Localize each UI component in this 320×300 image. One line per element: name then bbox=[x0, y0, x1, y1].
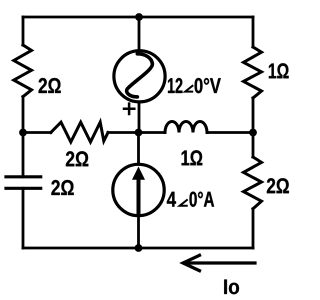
wire left top (top rail to R1) bbox=[22, 17, 25, 45]
voltage source V1 sine wave bbox=[127, 54, 153, 97]
label R2 value 1ohm bbox=[269, 63, 289, 78]
node C junction dot (mid right) bbox=[249, 129, 257, 137]
resistor R3 2ohm right lower bbox=[244, 157, 262, 209]
label I1 value 4 angle 0 A bbox=[167, 192, 176, 207]
wire middle (R4 to node B) bbox=[108, 131, 165, 134]
node B junction dot (mid center) bbox=[135, 129, 143, 137]
wire bottom rail bbox=[23, 247, 253, 250]
node bottom junction dot bbox=[135, 244, 143, 252]
node top junction dot bbox=[135, 13, 143, 21]
Io arrowhead bbox=[183, 255, 200, 270]
wire left (node A to C1) bbox=[22, 133, 25, 177]
angle symbol of V1 label bbox=[185, 85, 193, 91]
label L1 value 1ohm bbox=[182, 150, 203, 165]
wire right top (top rail to R2) bbox=[252, 17, 255, 47]
wire right bottom (R3 to bottom rail) bbox=[252, 209, 255, 248]
wire left bottom (C1 to bottom rail) bbox=[22, 188, 25, 248]
wire (I1 to bottom node) bbox=[137, 216, 140, 248]
wire right (node C to R3) bbox=[252, 133, 255, 158]
current source I1 circle bbox=[113, 164, 164, 215]
voltage source V1 circle bbox=[114, 51, 165, 102]
wire (V1 to node B) bbox=[138, 102, 141, 133]
node A junction dot (mid left) bbox=[19, 129, 27, 137]
label C1 value 2ohm bbox=[51, 180, 73, 195]
resistor R4 2ohm horizontal bbox=[51, 122, 108, 142]
resistor R2 1ohm right bbox=[244, 47, 262, 98]
inductor L1 1ohm bbox=[165, 122, 207, 133]
wire middle right (L1 to node C) bbox=[207, 131, 253, 134]
label V1 value 0 degree V bbox=[195, 78, 221, 93]
resistor R1 2ohm left bbox=[14, 45, 32, 97]
polarity plus sign of V1 bbox=[124, 104, 134, 114]
label R1 value 2ohm bbox=[39, 78, 61, 93]
capacitor C1 2ohm bbox=[6, 177, 41, 189]
label V1 value 12 angle 0 V bbox=[168, 78, 182, 93]
wire (node B to I1) bbox=[137, 133, 140, 165]
label I1 value 0 degree A bbox=[190, 192, 215, 207]
wire right (R2 to node C) bbox=[252, 98, 255, 133]
wire left (R1 to node A) bbox=[22, 97, 25, 133]
label R3 value 2ohm bbox=[267, 178, 289, 193]
angle symbol of I1 label bbox=[180, 199, 188, 205]
current source I1 arrowhead bbox=[132, 167, 145, 180]
label Io bbox=[224, 280, 239, 295]
wire top rail bbox=[23, 16, 253, 19]
Io arrow shaft bbox=[185, 261, 255, 264]
wire middle left (node A to R4) bbox=[23, 131, 51, 134]
label R4 value 2ohm bbox=[66, 151, 88, 166]
wire (top node to V1) bbox=[138, 17, 141, 50]
current source I1 arrow shaft bbox=[137, 178, 141, 214]
